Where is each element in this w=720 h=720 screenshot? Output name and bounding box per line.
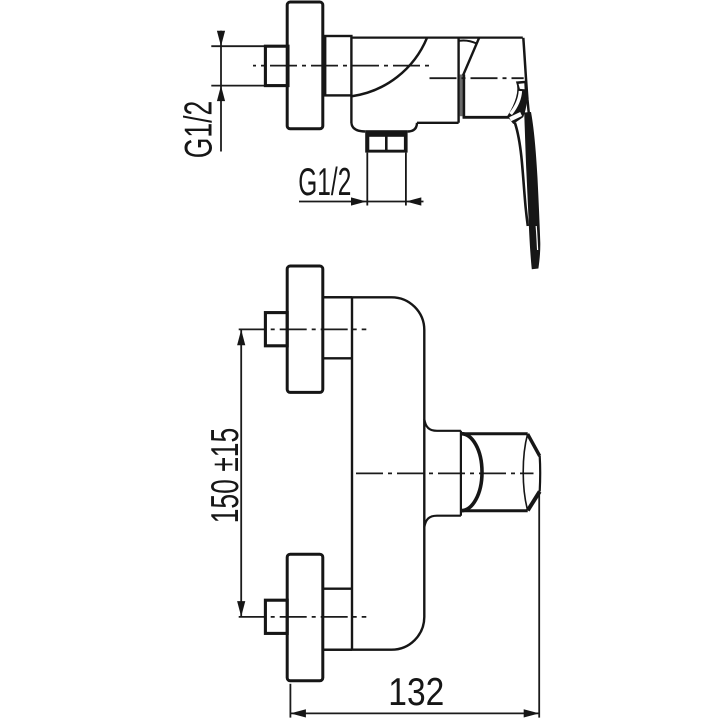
svg-text:G1/2: G1/2 xyxy=(177,101,220,159)
svg-text:G1/2: G1/2 xyxy=(298,161,351,204)
svg-text:150 ±15: 150 ±15 xyxy=(204,428,247,524)
svg-text:132: 132 xyxy=(388,671,444,714)
